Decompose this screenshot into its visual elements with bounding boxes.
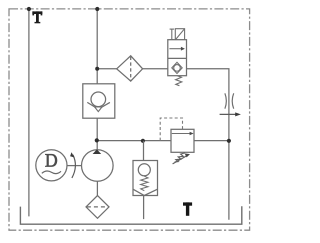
wire: branch to pressure filter	[97, 68, 117, 70]
port arrow (external pressure take-off)	[220, 112, 241, 116]
wire: relief valve outlet to return drop	[194, 140, 229, 142]
filter F1 (pressure filter)	[117, 56, 143, 81]
motor M1 AC tilde	[42, 171, 61, 174]
node: return drop junction	[227, 139, 231, 143]
wire: pump suction	[96, 181, 98, 195]
node: T port on enclosure	[27, 7, 31, 11]
node: pump outlet junction	[95, 138, 99, 142]
solenoid coil (box with diagonal)	[175, 29, 184, 40]
motor M1 letter D	[45, 154, 57, 167]
relief valve RV1 flow arrow	[172, 132, 194, 136]
wire: tank return line T	[28, 9, 30, 216]
rotation direction arc arrow	[72, 155, 76, 178]
relief valve RV1 body	[171, 129, 194, 152]
tank (open-top reservoir)	[20, 206, 241, 224]
wire: filter to solenoid valve	[143, 68, 168, 70]
valve V1 position a: flow arrow	[169, 47, 185, 51]
solenoid lead I	[170, 29, 175, 40]
relief valve RV1 adjust arrowhead	[185, 153, 190, 157]
valve V1 return spring	[176, 76, 182, 86]
tank T label	[183, 202, 192, 215]
pump P1 (circle)	[82, 150, 114, 182]
port T label	[32, 11, 42, 23]
wire: branch down to back-pressure valve	[143, 141, 145, 161]
rotation arrowhead	[70, 152, 74, 157]
valve V1 position b: check element (diamond with ball)	[172, 62, 182, 73]
wire: back-pressure valve to tank	[143, 196, 145, 220]
node: top pressure port on enclosure	[95, 7, 99, 11]
pilot line (dashed) to relief valve	[160, 118, 182, 141]
wire: solenoid valve outlet to right drop	[187, 69, 229, 220]
relief valve RV1 adjustable spring	[173, 153, 188, 164]
wire: main pressure line (pump to relief valve)	[97, 140, 171, 142]
node: filter branch junction	[95, 67, 99, 71]
check valve C1 (pump line, ball in box)	[83, 84, 115, 118]
back-pressure check valve C2 (ball + spring in box)	[133, 161, 158, 196]
suction strainer F2	[86, 196, 109, 219]
coupling (quick-disconnect arcs on drop line)	[225, 93, 234, 108]
enclosure border (dash-dot)	[9, 9, 250, 230]
node: back-pressure valve branch junction	[141, 139, 145, 143]
wire: pressure riser from pump to top port	[96, 9, 98, 150]
pump P1 outlet triangle (filled, pointing up)	[93, 149, 102, 154]
valve V1 body (2/2 solenoid cartridge valve, two stacked positions)	[168, 40, 187, 76]
motor M1 (electric motor circle)	[36, 150, 67, 181]
shaft: motor to pump	[67, 165, 82, 167]
